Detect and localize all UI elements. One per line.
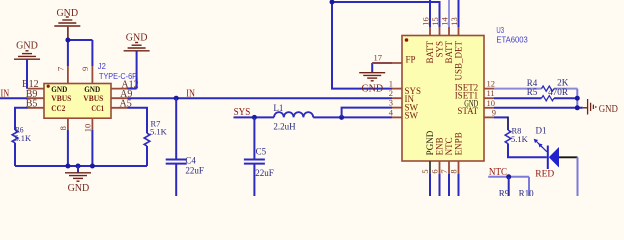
wire pin 9 STAT to R8: [494, 116, 509, 118]
wire IN to B9: [0, 97, 28, 99]
wire down right edge (periwinkle): [577, 157, 579, 196]
svg-text:GND: GND: [361, 83, 383, 94]
svg-text:SYS: SYS: [234, 107, 251, 118]
wire corner down (periwinkle): [576, 89, 578, 108]
junction dot C4: [174, 96, 179, 101]
junction dot NTC: [506, 174, 511, 179]
resistor R7: [144, 133, 150, 146]
wire GND stem down to B12 pin: [26, 59, 28, 88]
wire R4 to corner: [554, 88, 577, 90]
svg-text:BATT: BATT: [444, 40, 454, 63]
LED arrow 2: [534, 139, 543, 148]
svg-text:22uF: 22uF: [255, 168, 274, 178]
wire A9 / IN rail to U3 pin 2: [128, 97, 393, 99]
ground GND (right, rotated): [583, 107, 587, 109]
svg-text:ETA6003: ETA6003: [496, 34, 528, 44]
pin 9 stub: [91, 66, 93, 84]
pin 5 stub: [429, 161, 431, 174]
wire pin 5 down: [429, 174, 431, 196]
wire pin 8 drop: [67, 130, 69, 166]
svg-text:470R: 470R: [548, 87, 568, 97]
resistor R6: [12, 130, 18, 143]
svg-text:RED: RED: [535, 169, 554, 179]
pin B5 stub: [28, 107, 45, 109]
wire R10 drop: [528, 177, 530, 196]
wire SYS row to L1: [234, 116, 275, 118]
junction dot pin10/rail: [90, 164, 95, 169]
wire pin 6 down: [439, 174, 441, 196]
svg-text:VBUS: VBUS: [83, 93, 103, 103]
svg-text:10: 10: [82, 124, 92, 133]
svg-text:7: 7: [439, 169, 449, 173]
ground GND (top, above J2 pin 7): [54, 17, 80, 26]
pin-1 dot J2: [47, 85, 50, 88]
svg-text:USB_DET: USB_DET: [454, 41, 464, 81]
pin 1 stub: [392, 88, 402, 90]
wire LED anode (black): [559, 156, 578, 158]
svg-text:IN: IN: [186, 89, 195, 100]
svg-text:10: 10: [487, 98, 496, 108]
wire A5 to R7: [128, 108, 148, 133]
pin 11 stub: [484, 97, 494, 99]
svg-text:22uF: 22uF: [185, 166, 204, 176]
wire bottom rail: [15, 165, 147, 167]
svg-text:6: 6: [429, 169, 439, 173]
pin 13 stub: [458, 27, 460, 36]
svg-text:VBUS: VBUS: [51, 93, 71, 103]
svg-text:L1: L1: [273, 103, 283, 113]
wire pin 13 up: [458, 0, 460, 27]
LED arrow 1: [538, 143, 547, 152]
junction dot top rail: [330, 0, 335, 5]
wire pin 11 to R5: [494, 97, 542, 99]
svg-text:D1: D1: [536, 126, 547, 136]
svg-text:13: 13: [449, 17, 459, 26]
wire junction to pin 9 column: [68, 39, 93, 41]
wire pin 8 down: [458, 174, 460, 196]
pin 6 stub: [439, 161, 441, 174]
ground GND (right of J2, on A12): [124, 43, 150, 51]
svg-text:9: 9: [80, 67, 90, 71]
pin 7 stub: [67, 66, 69, 84]
pin 10 stub: [484, 107, 494, 109]
pin 10 stub: [91, 118, 93, 130]
svg-text:3: 3: [389, 98, 393, 108]
junction dot at (68,40): [65, 38, 70, 43]
junction dot C5: [252, 115, 257, 120]
svg-text:BATT: BATT: [425, 40, 435, 63]
pin 15 stub: [439, 27, 441, 36]
wire pin 7 vertical: [67, 40, 69, 66]
pin 8 stub: [67, 118, 69, 130]
pin 16 stub: [429, 27, 431, 36]
pin 9 stub: [484, 116, 494, 118]
svg-text:17: 17: [374, 53, 383, 63]
pin 2 stub: [392, 97, 402, 99]
pin A9 stub: [111, 97, 128, 99]
junction dot pin3 drop: [339, 115, 344, 120]
wire FP to ground: [372, 62, 392, 64]
IC U3 body: [402, 36, 484, 162]
svg-text:CC1: CC1: [91, 103, 104, 113]
junction dot pin8/rail: [65, 164, 70, 169]
pin-1 dot U3: [405, 38, 409, 42]
wire R9 drop: [508, 177, 510, 196]
svg-text:ENB: ENB: [435, 137, 445, 155]
svg-text:2.2uH: 2.2uH: [273, 122, 296, 132]
wire NTC: [488, 176, 529, 178]
inductor L1: [274, 112, 313, 117]
svg-text:CC2: CC2: [51, 103, 65, 113]
pin B9 stub: [28, 97, 45, 99]
svg-text:5: 5: [420, 169, 430, 173]
wire pin 7 down: [448, 174, 450, 196]
svg-text:STAT: STAT: [457, 106, 478, 116]
svg-text:R9: R9: [499, 189, 510, 197]
wire pin 12 to R4: [494, 88, 542, 90]
svg-text:GND: GND: [599, 103, 618, 115]
svg-text:GND: GND: [126, 33, 148, 44]
pin 12 stub: [484, 88, 494, 90]
wire pin 9 vertical: [91, 40, 93, 66]
ground GND (left, on B12): [14, 51, 40, 59]
wire pin 1 SYS to top rail: [332, 2, 440, 89]
connector J2 body: [44, 84, 111, 119]
wire B5 to R6: [15, 108, 28, 130]
svg-text:C5: C5: [256, 146, 267, 156]
svg-text:GND: GND: [68, 183, 90, 194]
diode D1 LED: [547, 146, 549, 170]
svg-text:5.1K: 5.1K: [15, 133, 32, 143]
pin 8 stub (U3): [458, 161, 460, 174]
svg-text:5.1K: 5.1K: [511, 134, 529, 144]
svg-text:FP: FP: [406, 55, 416, 65]
wire R6 to rail: [14, 143, 16, 166]
pin 7 stub (U3): [448, 161, 450, 174]
svg-text:NTC: NTC: [444, 137, 454, 155]
pin A12 stub: [111, 88, 128, 90]
wire A12 to GND stem: [128, 88, 137, 90]
svg-text:2K: 2K: [557, 77, 569, 87]
svg-text:14: 14: [440, 17, 450, 26]
wire pin 10 GND to symbol: [494, 107, 583, 109]
svg-text:8: 8: [58, 126, 68, 130]
svg-text:12: 12: [487, 79, 496, 89]
resistor R4: [542, 86, 554, 91]
wire R5 to junction: [554, 97, 577, 99]
svg-text:15: 15: [430, 17, 440, 26]
wire GND stem to junction: [67, 27, 69, 40]
svg-text:J2: J2: [98, 61, 106, 71]
svg-text:PGND: PGND: [425, 130, 435, 155]
capacitor C4: [175, 98, 177, 159]
wire pin 16 up: [429, 0, 431, 27]
pin 14 stub: [448, 27, 450, 36]
svg-text:16: 16: [421, 17, 431, 26]
svg-text:C4: C4: [185, 156, 196, 166]
wire R8 to LED: [508, 144, 547, 158]
wire GND stem down to A12 wire: [136, 51, 138, 89]
wire GND stem overlay (A12): [136, 78, 138, 89]
svg-text:GND: GND: [56, 8, 78, 19]
wire L1 to U3 pin 4: [313, 116, 392, 118]
svg-text:GND: GND: [16, 41, 38, 52]
svg-text:SYS: SYS: [435, 41, 445, 58]
capacitor C5: [253, 117, 255, 159]
svg-text:ENPB: ENPB: [454, 132, 464, 155]
svg-text:R5: R5: [527, 87, 538, 97]
wire GND stem overlay (B12): [26, 78, 28, 89]
svg-text:R10: R10: [519, 189, 535, 197]
ground GND (FP): [371, 63, 373, 73]
pin B12 stub: [28, 88, 45, 90]
pin A5 stub: [111, 107, 128, 109]
svg-text:5.1K: 5.1K: [150, 127, 168, 137]
junction dot GND wire: [575, 105, 580, 110]
svg-text:8: 8: [448, 169, 458, 173]
svg-text:11: 11: [487, 88, 495, 98]
svg-text:1: 1: [389, 79, 393, 89]
svg-text:SW: SW: [405, 111, 419, 121]
wire R7 to rail: [146, 146, 148, 166]
svg-text:9: 9: [492, 107, 496, 117]
pin 4 stub: [392, 116, 402, 118]
junction dot R5: [575, 96, 580, 101]
wire pin 10 drop: [91, 130, 93, 166]
svg-text:7: 7: [56, 67, 66, 71]
wire pin 3 jog: [342, 108, 392, 118]
junction dot gnd/rail: [76, 164, 81, 169]
resistor R5: [542, 96, 554, 101]
wire pin 14 up: [448, 0, 450, 27]
resistor R8: [505, 130, 511, 144]
pin 17 stub: [372, 62, 402, 64]
pin 3 stub: [392, 107, 402, 109]
ground GND (bottom of J2): [77, 166, 79, 173]
